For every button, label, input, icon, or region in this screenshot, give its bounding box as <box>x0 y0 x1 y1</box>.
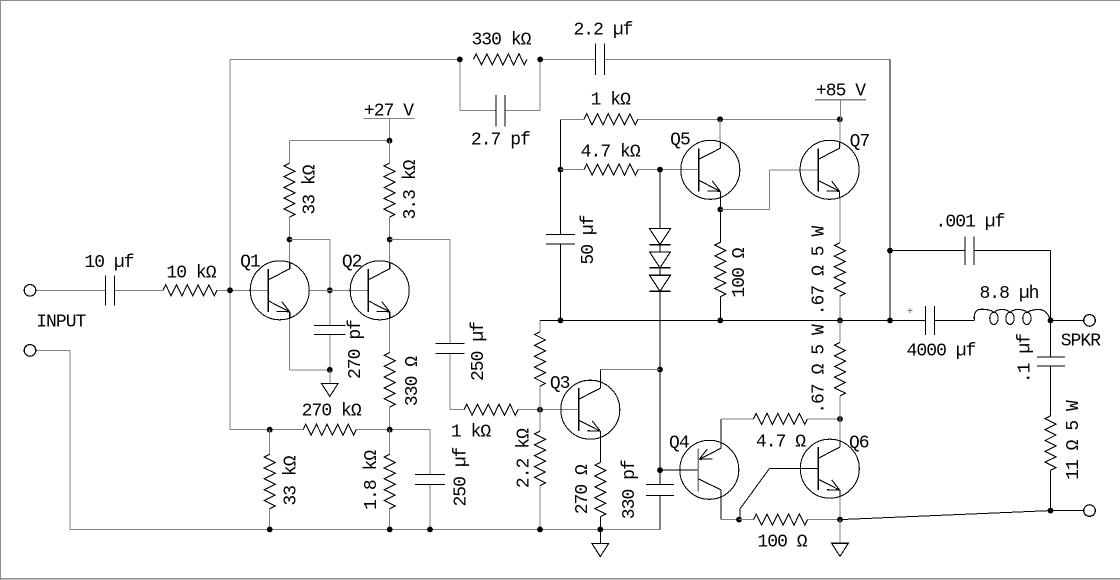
wire Q1 collector node to 270pf column <box>290 240 330 326</box>
resistor 270ohm <box>595 462 606 516</box>
svg-text:250 µf: 250 µf <box>451 447 471 506</box>
svg-text:1 kΩ: 1 kΩ <box>451 423 492 443</box>
label 3.3k (rot) <box>401 159 421 219</box>
wire Q4 emitter up to 4.7ohm row <box>721 419 754 442</box>
wire bottom ground rail <box>70 528 660 530</box>
node dot Q4 base / 330pf top <box>657 467 663 473</box>
terminal input1 <box>24 285 36 297</box>
svg-text:33 kΩ: 33 kΩ <box>282 455 302 505</box>
resistor 2.2k <box>535 431 546 485</box>
wire 1k-mid right to Q3 base <box>518 409 579 411</box>
wire +27V stub <box>389 119 391 141</box>
wire x=890 vertical (2.2uf to output rail) <box>889 59 891 320</box>
supply bar +85V <box>815 99 866 101</box>
svg-text:Q2: Q2 <box>342 253 362 273</box>
wire 10uf to 10k <box>115 289 163 291</box>
wire 4000uf to coil <box>0 0 1 1</box>
label Q1 <box>240 253 260 273</box>
label Q2 <box>342 253 362 273</box>
label .1uf (rot) <box>1016 334 1036 383</box>
svg-text:Q1: Q1 <box>240 253 260 273</box>
wire Q2 emitter to 330ohm <box>389 311 391 352</box>
svg-text:2.7 pf: 2.7 pf <box>471 130 530 150</box>
node dot 50uf bottom <box>558 318 564 324</box>
wire Q5 collector stub <box>719 119 721 147</box>
node dot rail x=890 <box>887 318 893 324</box>
label 250uf#2 (rot) <box>451 447 471 506</box>
label +27V <box>364 101 414 121</box>
label 10uf <box>84 253 133 273</box>
capacitor 250uf#2 <box>415 475 445 485</box>
node dot 4.7k left <box>558 167 564 173</box>
svg-text:Q7: Q7 <box>850 132 870 152</box>
capacitor .001uf <box>965 236 974 264</box>
wire .67up bottom <box>839 296 841 320</box>
label 2.7pf <box>471 130 530 150</box>
svg-text:250 µf: 250 µf <box>469 322 489 381</box>
wire to SPKR terminal <box>1051 319 1085 321</box>
inductor 8.8uh <box>935 309 1050 324</box>
node dot rail 1.8k <box>387 527 393 533</box>
svg-text:SPKR: SPKR <box>1061 332 1102 352</box>
wire diode node down to Q4 base node <box>659 370 661 471</box>
svg-text:Q5: Q5 <box>670 130 690 150</box>
svg-text:.67 Ω 5 W: .67 Ω 5 W <box>810 324 830 414</box>
resistor 330ohm <box>384 353 395 407</box>
node dot Q1 base <box>227 287 233 293</box>
diode D1 <box>650 229 671 245</box>
wire between diodes <box>659 245 661 276</box>
transistor Q1 <box>250 261 309 320</box>
label 4.7ohm <box>756 432 806 452</box>
svg-text:INPUT: INPUT <box>36 313 86 333</box>
svg-text:Q6: Q6 <box>849 434 869 454</box>
wire feedback vertical x=230 <box>229 59 231 429</box>
transistor Q3 <box>561 380 620 439</box>
capacitor .1uf <box>1037 357 1065 366</box>
wire +27V rail to 33k <box>290 141 390 163</box>
wire 33k-mid column <box>539 320 541 409</box>
transistor Q4 <box>680 440 739 499</box>
wire Q6 collector stub <box>839 419 841 441</box>
wire 1k-top row <box>561 118 840 120</box>
svg-text:4.7 Ω: 4.7 Ω <box>756 432 806 452</box>
node dot output2 <box>1048 508 1054 514</box>
wire 270pf bottom to gnd node <box>329 334 331 370</box>
capacitor 270pf <box>314 326 345 335</box>
transistor Q2 <box>350 261 409 320</box>
svg-text:270 kΩ: 270 kΩ <box>302 402 362 422</box>
label 1k mid <box>451 423 492 443</box>
svg-text:Q4: Q4 <box>669 434 689 454</box>
label 50uf (rot) <box>579 215 599 264</box>
transistor Q5 <box>681 140 740 199</box>
label 10k <box>166 264 216 284</box>
node dot +27V <box>387 138 393 144</box>
wire .1uf column <box>1050 320 1052 416</box>
resistor 1k mid <box>464 404 518 415</box>
label 4000uf <box>907 341 976 361</box>
wire Q6 emitter stub <box>839 497 841 520</box>
resistor 11ohm <box>1045 416 1056 470</box>
wire Q1 to Q2 base <box>310 289 369 291</box>
node dot rail 33k-2 <box>267 527 273 533</box>
label 1k top <box>591 91 632 111</box>
resistor 330k <box>474 54 528 65</box>
wire Q1 emitter <box>290 311 330 370</box>
wire .67low top stub <box>839 320 841 342</box>
label 100ohm bottom <box>757 533 807 553</box>
svg-text:+27 V: +27 V <box>364 101 414 121</box>
svg-text:270 Ω: 270 Ω <box>573 464 593 514</box>
wire 330k/2.7pf loop <box>460 59 540 110</box>
label 270pf (rot) <box>346 320 366 379</box>
node dot Q1 collector <box>287 237 293 243</box>
resistor 33k Q1 <box>284 163 295 217</box>
resistor 33k-2 <box>264 454 275 508</box>
svg-text:270 pf: 270 pf <box>346 320 366 379</box>
wire 100ohm-bot right <box>808 519 841 521</box>
label 4.7k <box>581 142 641 162</box>
node dot Q2 base junction <box>327 287 333 293</box>
wire 270ohm bottom <box>599 517 601 530</box>
wire input1 to 10uf <box>35 289 105 291</box>
resistor 1.8k <box>384 454 395 508</box>
label 8.8uh <box>979 284 1038 304</box>
label 330pf (rot) <box>620 460 640 519</box>
node dot rail 2.2k <box>537 527 543 533</box>
ground G2 <box>592 529 609 556</box>
wire Q4 collector down <box>721 498 739 520</box>
plus sign 4000uf <box>908 308 913 313</box>
label 1.8k (rot) <box>362 450 382 510</box>
label Q6 <box>849 434 869 454</box>
wire Q3 emitter <box>599 438 601 462</box>
label Q4 <box>669 434 689 454</box>
label .67 up (rot) <box>810 226 830 316</box>
wire 11ohm bottom <box>1050 470 1052 510</box>
label 33k Q1 (rot) <box>301 164 321 214</box>
svg-text:1 kΩ: 1 kΩ <box>591 91 632 111</box>
label SPKR <box>1061 332 1102 352</box>
node dot .001uf left <box>887 248 893 254</box>
node dot rail 270ohm <box>597 527 603 533</box>
capacitor 50uf <box>546 235 575 245</box>
resistor 3.3k <box>384 163 395 217</box>
ground G1 <box>321 370 338 397</box>
wire 3.3k top stub <box>389 141 391 164</box>
wire Q5 emitter node <box>719 198 721 242</box>
wire 100ohm-Q5 bottom <box>719 297 721 321</box>
node dot rail 250uf#2 <box>427 527 433 533</box>
label 11ohm (rot) <box>1064 400 1084 480</box>
wire Q3 collector <box>600 370 660 382</box>
wire top feedback rail y=59.4 <box>230 58 890 60</box>
resistor 100ohm bottom <box>754 514 808 525</box>
svg-text:3.3 kΩ: 3.3 kΩ <box>401 159 421 219</box>
node dot 100ohm rail <box>717 318 723 324</box>
supply bar +27V <box>364 118 415 120</box>
ground G3 <box>832 520 849 557</box>
wire input2 down to ground rail <box>35 350 69 529</box>
wire output rail y=320.4 <box>540 319 926 321</box>
resistor 270k <box>303 424 356 435</box>
wire 1.8k column <box>389 430 391 530</box>
wire 250uf#2 bottom <box>429 485 431 530</box>
svg-text:4.7 kΩ: 4.7 kΩ <box>581 142 641 162</box>
wire 330pf bottom to rail <box>659 496 661 530</box>
label 33k-2 (rot) <box>282 455 302 505</box>
svg-text:.67 Ω 5 W: .67 Ω 5 W <box>810 226 830 316</box>
capacitor 250uf#1 <box>435 344 464 354</box>
node dot 33k-2 top <box>267 427 273 433</box>
node dot Q3 collector <box>657 367 663 373</box>
label 100ohm Q5 (rot) <box>730 247 750 297</box>
wire Q5 emitter to Q7 base Z <box>720 170 818 210</box>
node dot Q4 collector / Q6 base / 100ohm <box>736 517 742 523</box>
wire .001uf row <box>890 251 1051 321</box>
wire 100ohm-bot left <box>739 519 754 521</box>
wire feedback row y=429.7 <box>230 430 430 475</box>
svg-text:11 Ω 5 W: 11 Ω 5 W <box>1064 400 1084 480</box>
svg-text:.001 µf: .001 µf <box>936 213 1005 233</box>
label 250uf#1 (rot) <box>469 322 489 381</box>
diode D2 <box>650 252 671 268</box>
wire 33k-2 column <box>269 430 271 530</box>
resistor 1k top <box>584 114 638 125</box>
node dot Q6 emitter gnd <box>837 517 843 523</box>
wire 10k to Q1 base <box>217 289 268 291</box>
svg-text:Q3: Q3 <box>550 374 570 394</box>
wire .67low bottom stub <box>839 396 841 419</box>
svg-text:8.8 µh: 8.8 µh <box>979 284 1038 304</box>
wire 330pf top stub <box>659 470 661 484</box>
node dot 4.7ohm / .67low / Q6 collector <box>837 416 843 422</box>
wire Q6 base diagonal <box>740 469 819 520</box>
svg-text:100 Ω: 100 Ω <box>757 533 807 553</box>
label 330ohm (rot) <box>403 356 423 406</box>
svg-text:33 kΩ: 33 kΩ <box>301 164 321 214</box>
resistor 33k mid <box>535 332 546 386</box>
wire 250uf#1 bottom to 1k row <box>450 353 464 409</box>
label 2.2k (rot) <box>515 428 535 488</box>
node dot .67 rail <box>837 318 843 324</box>
resistor 100ohm Q5 <box>715 242 726 296</box>
label 2.2uf <box>573 21 632 41</box>
node dot coil right / spkr <box>1048 318 1054 324</box>
svg-text:330 kΩ: 330 kΩ <box>471 31 531 51</box>
resistor 4.7ohm <box>754 413 808 424</box>
node dot Q5 collector top <box>717 116 723 122</box>
node dot 270k right / 1.8k top <box>387 427 393 433</box>
wire Q4 base <box>660 469 699 471</box>
wire 3.3k bottom to Q2 collector <box>389 217 391 262</box>
capacitor 2.2uf <box>596 44 605 75</box>
node dot Q3 base / 33k-mid / 2.2k <box>537 407 543 413</box>
svg-text:330 pf: 330 pf <box>620 460 640 519</box>
node dot +85V junction <box>837 116 843 122</box>
svg-text:100 Ω: 100 Ω <box>730 247 750 297</box>
wire 33k bottom to Q1 collector node <box>289 217 291 262</box>
node dot 330k right <box>537 57 543 63</box>
node dot Q5 emitter <box>717 207 723 213</box>
wire slant to output terminal 2 <box>840 511 1051 520</box>
terminal spkr- <box>1084 505 1096 517</box>
diode D3 <box>650 275 671 291</box>
svg-text:50 µf: 50 µf <box>579 215 599 264</box>
wire 4.7ohm right <box>808 418 841 420</box>
svg-text:10 kΩ: 10 kΩ <box>166 264 216 284</box>
node dot diode top <box>657 167 663 173</box>
wire diode column top <box>659 170 661 229</box>
svg-text:10 µf: 10 µf <box>84 253 133 273</box>
label 270k <box>302 402 362 422</box>
capacitor 330pf <box>646 485 674 496</box>
label 270ohm (rot) <box>573 464 593 514</box>
terminal input2 <box>24 345 36 357</box>
svg-text:2.2 µf: 2.2 µf <box>573 21 632 41</box>
capacitor 10uf <box>106 275 115 305</box>
resistor 10k <box>163 285 217 296</box>
wire 330ohm bottom <box>389 407 391 430</box>
wire diode bottom to Q3 collector node <box>659 291 661 369</box>
capacitor 4000uf <box>926 306 935 335</box>
wire 4.7k row <box>561 169 699 171</box>
svg-text:330 Ω: 330 Ω <box>403 356 423 406</box>
label .67 low (rot) <box>810 324 830 414</box>
wire 2.2k column <box>539 410 541 530</box>
label INPUT <box>36 313 86 333</box>
label 330k <box>471 31 531 51</box>
svg-text:1.8 kΩ: 1.8 kΩ <box>362 450 382 510</box>
svg-text:4000 µf: 4000 µf <box>907 341 976 361</box>
transistor Q6 <box>800 439 859 498</box>
node dot Q2 collector <box>387 237 393 243</box>
terminal spkr+ <box>1084 315 1096 327</box>
label Q5 <box>670 130 690 150</box>
svg-text:.1 µf: .1 µf <box>1016 334 1036 383</box>
wire 50uf column <box>560 119 562 320</box>
node dot Q1 emitter/270pf/gnd <box>327 367 333 373</box>
wire Q7 collector stub <box>839 119 841 147</box>
resistor .67ohm low <box>835 343 846 396</box>
label .001uf <box>936 213 1005 233</box>
wire +85V stub <box>840 100 842 120</box>
label Q7 <box>850 132 870 152</box>
label +85V <box>816 81 866 101</box>
svg-text:+85 V: +85 V <box>816 81 866 101</box>
capacitor 2.7pf <box>496 95 505 126</box>
label Q3 <box>550 374 570 394</box>
transistor Q7 <box>800 140 859 199</box>
wire Q2 collector to 250uf column <box>390 240 450 344</box>
resistor .67ohm up <box>834 243 845 297</box>
svg-text:2.2 kΩ: 2.2 kΩ <box>515 428 535 488</box>
wire to output terminal 2 <box>1051 510 1085 512</box>
resistor 4.7k <box>584 164 638 175</box>
node dot 330k left <box>457 57 463 63</box>
wire Q7 emitter to .67 up <box>839 198 841 243</box>
